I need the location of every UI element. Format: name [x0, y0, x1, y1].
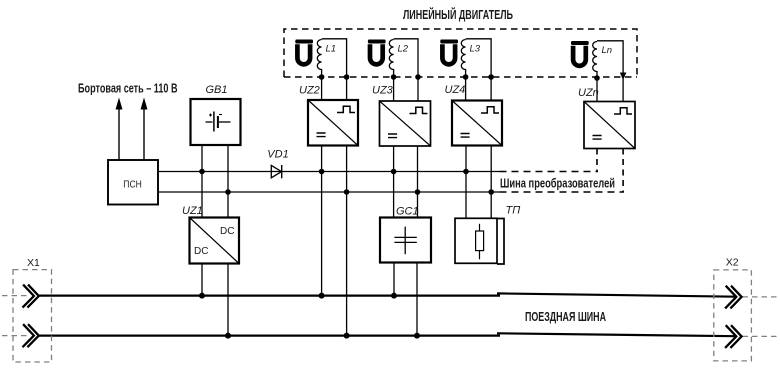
svg-text:UZn: UZn — [578, 87, 599, 99]
svg-text:GC1: GC1 — [396, 205, 419, 217]
junction (UZ1 on train bus 1) — [199, 293, 205, 299]
motor section dashed bus (enclosure bottom) — [284, 76, 637, 78]
connector X2 lower chevron — [725, 325, 742, 348]
diode VD1 — [267, 149, 288, 179]
svg-text:ЛИНЕЙНЫЙ ДВИГАТЕЛЬ: ЛИНЕЙНЫЙ ДВИГАТЕЛЬ — [403, 7, 513, 22]
wire: UZ1 bottom-left to train bus 1 — [201, 264, 203, 296]
junction (UZ3 on converter bus 1) — [391, 169, 397, 175]
wire: L3 top to UZ4 right input — [466, 39, 492, 101]
connector X2 (dashed outline) — [714, 257, 752, 361]
magnet symbol U-bar (section 1) — [295, 40, 313, 65]
wire: L3 bottom to UZ4 left input — [465, 69, 467, 101]
connector X1 upper chevron — [23, 285, 39, 308]
wire: UZ2 bottom-right to train bus 2 — [346, 146, 348, 336]
svg-text:UZ3: UZ3 — [372, 84, 394, 96]
junction (L1 bottom wire on motor dashed bus) — [319, 74, 325, 80]
inductor L1 — [317, 40, 336, 70]
arrow to onboard network (right) — [141, 98, 148, 161]
svg-text:VD1: VD1 — [267, 149, 288, 161]
wire (dashed): UZn bottom-left to converter bus 1 — [596, 149, 598, 172]
junction (Ln bottom wire on motor dashed bus) — [594, 75, 600, 81]
train bus 2 (right segment) — [497, 333, 736, 336]
junction (L1 right wire on motor dashed bus) — [344, 74, 350, 80]
junction (GC1 on train bus 1) — [391, 293, 397, 299]
arrow to onboard network (left) — [116, 98, 123, 161]
train bus 1 (right segment) — [497, 293, 736, 296]
svg-text:DC: DC — [194, 246, 208, 257]
converter bus line 2 (dashed continuation) — [500, 191, 625, 193]
connector X2 upper chevron — [725, 286, 742, 309]
junction (GB1 right lead on converter bus 2) — [225, 189, 231, 195]
converter UZ3 — [372, 84, 431, 146]
wire: Ln top to UZn right input — [597, 41, 623, 102]
linear motor dashed enclosure — [284, 29, 637, 77]
wire: GB1 left lead down to UZ1 — [201, 145, 203, 218]
svg-text:UZ4: UZ4 — [445, 84, 466, 96]
junction (UZ2 on train bus 2) — [344, 333, 350, 339]
junction (GC1 on train bus 2) — [414, 333, 420, 339]
junction (UZ4 on converter bus 2) — [488, 189, 494, 195]
brake resistor block ТП — [455, 205, 520, 265]
stub (dashed) left of X1 upper — [2, 295, 27, 297]
junction (UZ1 on train bus 2) — [225, 333, 231, 339]
magnet symbol U-bar (section 3) — [440, 40, 458, 65]
junction (L2 bottom wire on motor dashed bus) — [391, 74, 397, 80]
svg-text:Ln: Ln — [602, 45, 613, 56]
wire: Ln bottom to UZn left input — [596, 71, 598, 102]
wire: UZ1 bottom-right to train bus 2 — [227, 264, 229, 336]
wire: L1 top to UZ2 right input — [322, 39, 347, 101]
stub (dashed) left of X1 lower — [2, 335, 27, 337]
junction (L3 bottom wire on motor dashed bus) — [463, 74, 469, 80]
magnet symbol U-bar (section n) — [571, 41, 589, 66]
svg-text:GB1: GB1 — [206, 84, 228, 96]
wire: UZ3 bottom-right to GC1 — [417, 146, 419, 218]
train bus 1 (left segment) — [39, 295, 500, 297]
svg-text:L3: L3 — [470, 44, 481, 55]
capacitor GC1 — [380, 205, 431, 262]
junction (UZ3 on converter bus 2) — [415, 189, 421, 195]
converter UZ4 — [445, 84, 503, 146]
svg-text:L1: L1 — [326, 44, 337, 55]
block ПСН (power supply) — [108, 160, 158, 205]
junction (UZ2 on converter bus 2) — [344, 189, 350, 195]
junction (UZ4 on converter bus 1) — [463, 169, 469, 175]
wire: UZ3 bottom-left to GC1 — [393, 146, 395, 218]
wire: GB1 right lead down to UZ1 — [227, 145, 229, 218]
svg-text:UZ1: UZ1 — [182, 205, 203, 217]
svg-text:DC: DC — [220, 226, 234, 237]
converter bus line 1 (solid) — [158, 171, 500, 173]
inductor L2 — [389, 40, 408, 70]
inductor L3 — [461, 40, 480, 70]
junction (GB1 left lead on converter bus 1) — [199, 169, 205, 175]
magnet symbol U-bar (section 2) — [368, 40, 386, 65]
junction (UZ2 on train bus 1) — [319, 293, 325, 299]
wire (dashed): UZn bottom-right to converter bus 2 — [622, 149, 624, 193]
wire: L2 top to UZ3 right input — [394, 39, 418, 101]
svg-text:UZ2: UZ2 — [299, 84, 320, 96]
converter UZ1 (DC/DC) — [182, 205, 239, 264]
connector X1 (dashed outline) — [13, 257, 52, 362]
wire: L1 bottom to UZ2 left input — [321, 69, 323, 100]
svg-text:Бортовая сеть – 110 В: Бортовая сеть – 110 В — [78, 81, 178, 95]
inductor Ln — [593, 42, 612, 72]
train bus 2 (left segment) — [39, 335, 500, 337]
svg-text:L2: L2 — [398, 44, 409, 55]
stub (dashed) right of X2 lower — [743, 335, 780, 337]
svg-text:Шина преобразователей: Шина преобразователей — [500, 177, 615, 191]
svg-text:ПСН: ПСН — [123, 180, 142, 191]
svg-text:ТП: ТП — [506, 205, 521, 217]
svg-text:X2: X2 — [726, 257, 739, 269]
converter UZn — [578, 87, 635, 149]
arrow down (Ln right wire onto motor dashed bus) — [620, 73, 627, 81]
wire: L2 bottom to UZ3 left input — [393, 69, 395, 101]
svg-text:X1: X1 — [27, 257, 40, 269]
wire: UZ4 bottom-left to TP — [465, 146, 467, 219]
wire: UZ2 bottom-left to train bus 1 — [321, 146, 323, 296]
wire: UZ4 bottom-right to TP — [490, 146, 492, 219]
wire: GC1 bottom-right to train bus 2 — [416, 263, 418, 336]
converter bus line 2 (solid) — [158, 191, 500, 193]
wire: GC1 bottom-left to train bus 1 — [393, 263, 395, 296]
converter UZ2 — [299, 84, 358, 145]
stub (dashed) right of X2 upper — [743, 296, 780, 298]
junction (L3 right wire on motor dashed bus) — [488, 74, 494, 80]
junction (L2 right wire on motor dashed bus) — [415, 74, 421, 80]
svg-text:ПОЕЗДНАЯ ШИНА: ПОЕЗДНАЯ ШИНА — [525, 310, 606, 324]
battery GB1 — [191, 84, 241, 145]
converter bus line 1 (dashed continuation) — [500, 171, 599, 173]
junction (UZ2 on converter bus 1) — [319, 169, 325, 175]
connector X1 lower chevron — [23, 324, 39, 347]
